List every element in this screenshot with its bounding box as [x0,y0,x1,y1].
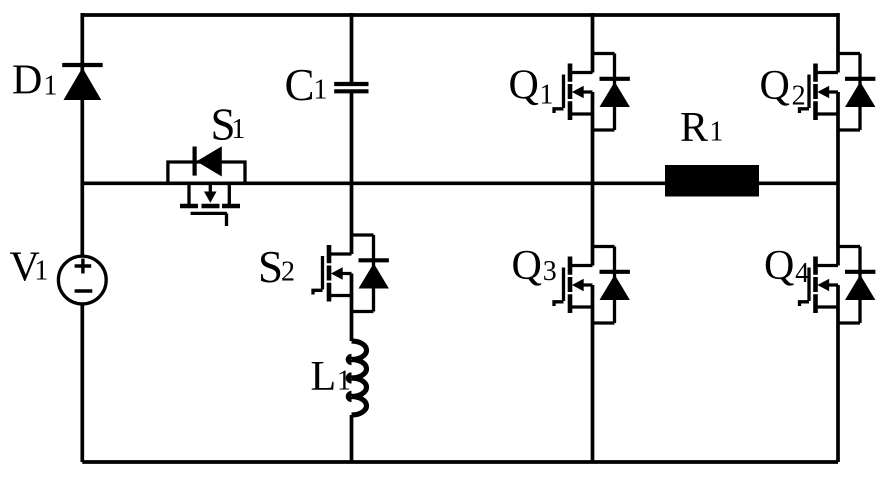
svg-text:Q: Q [509,63,539,109]
svg-text:Q: Q [760,63,790,109]
svg-text:D: D [12,58,42,104]
svg-text:4: 4 [795,258,809,289]
svg-text:1: 1 [43,71,57,102]
svg-text:2: 2 [281,257,295,288]
svg-text:2: 2 [792,81,806,112]
svg-text:1: 1 [34,256,48,287]
svg-text:Q: Q [764,243,794,289]
svg-text:R: R [680,105,708,151]
svg-text:S: S [258,242,283,292]
svg-text:1: 1 [313,75,327,106]
svg-text:1: 1 [337,366,351,397]
svg-text:3: 3 [543,256,557,287]
svg-text:1: 1 [539,79,553,110]
svg-text:1: 1 [231,114,245,145]
svg-text:1: 1 [709,116,723,147]
svg-text:C: C [285,60,315,110]
svg-text:Q: Q [512,243,542,289]
svg-text:L: L [311,354,337,400]
